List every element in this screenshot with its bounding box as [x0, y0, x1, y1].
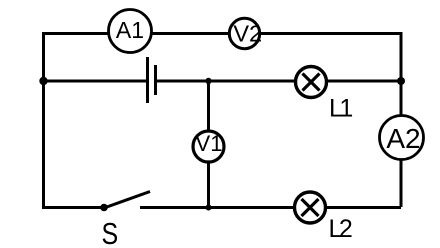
svg-text:A2: A2 — [386, 123, 420, 154]
battery B1 — [148, 57, 156, 103]
lamp L1 — [296, 67, 327, 98]
label L2 — [329, 215, 352, 243]
wire top — [44, 32, 402, 35]
wire bottom-right — [140, 206, 401, 209]
voltmeter V2 — [229, 18, 262, 48]
node V1 top junction — [205, 78, 211, 84]
wire left — [42, 32, 45, 207]
voltmeter V1 — [193, 131, 224, 162]
svg-text:V1: V1 — [196, 131, 223, 156]
svg-text:S: S — [102, 217, 119, 248]
svg-text:A1: A1 — [116, 17, 144, 43]
ammeter A1 — [109, 10, 152, 53]
switch S — [100, 192, 150, 212]
node V1 bottom junction — [206, 205, 212, 211]
node right junction — [397, 77, 405, 85]
node left junction — [39, 77, 47, 85]
wire middle-right — [156, 80, 402, 83]
label L1 — [329, 94, 352, 122]
svg-text:V2: V2 — [233, 20, 262, 46]
wire right — [400, 32, 403, 207]
svg-text:L1: L1 — [329, 94, 352, 122]
wire middle-left — [44, 80, 148, 83]
svg-text:L2: L2 — [329, 215, 352, 243]
wire V1 branch — [207, 81, 210, 207]
label S — [102, 217, 119, 248]
lamp L2 — [295, 192, 326, 223]
wire bottom-left — [42, 206, 104, 209]
ammeter A2 — [380, 116, 424, 160]
